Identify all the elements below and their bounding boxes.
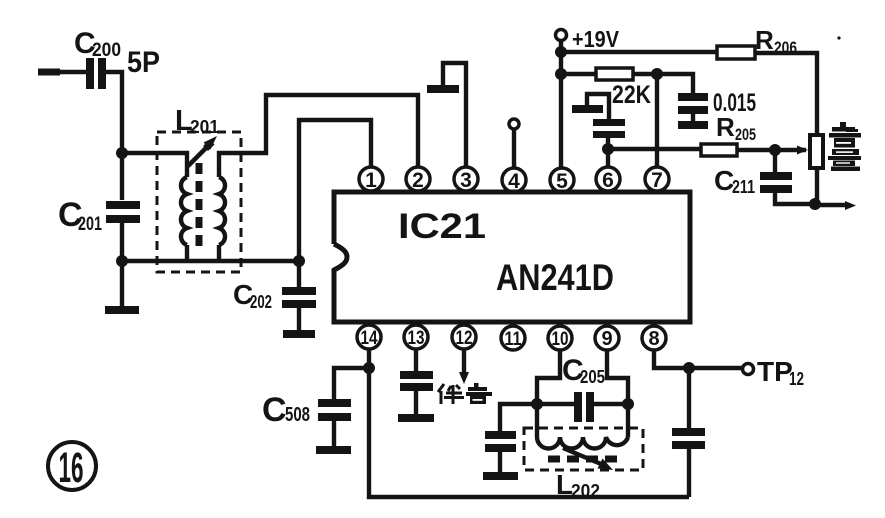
- ground: [483, 472, 518, 480]
- inductor L201 primary winding: [181, 177, 187, 245]
- label L201: [175, 105, 219, 137]
- op-amp U1 IC21 AN241D body: [334, 192, 690, 322]
- svg-text:12: 12: [456, 328, 473, 349]
- svg-text:16: 16: [59, 444, 84, 492]
- pin 1: [359, 167, 383, 192]
- inductor L202 tuning arrow: [563, 448, 613, 470]
- svg-text:TP: TP: [757, 356, 793, 387]
- node pot bottom junction: [809, 198, 821, 210]
- svg-text:3: 3: [460, 169, 472, 192]
- wire pin 12 output arrow: [459, 349, 469, 384]
- wire C202 to ground: [297, 308, 301, 330]
- svg-text:2: 2: [412, 169, 424, 192]
- capacitor C202: [282, 287, 316, 308]
- node tank right junction: [622, 398, 634, 410]
- wire pin 7 riser: [655, 74, 659, 167]
- wire C508 to ground: [332, 421, 336, 446]
- wire side cap to ground: [498, 452, 502, 472]
- svg-text:13: 13: [408, 328, 425, 349]
- wire pin14 down and bottom bus: [369, 368, 689, 497]
- wire pin14 to C508: [334, 368, 369, 399]
- wire input line: [38, 70, 86, 74]
- inductor L202 dashed box: [524, 428, 643, 470]
- node A junction: [116, 147, 128, 159]
- capacitor tank bypass: [485, 431, 516, 452]
- wire node B down to ground: [120, 261, 124, 306]
- label volume chinese: [828, 122, 861, 171]
- wire bottom bus y261 node B to node C: [122, 259, 299, 263]
- ground: [105, 306, 139, 314]
- svg-text:1: 1: [365, 169, 377, 192]
- wire node C up to pin 1: [299, 120, 371, 261]
- wire node C to C202: [297, 261, 301, 287]
- wire node E to C211: [773, 150, 777, 172]
- wire node TP down to cap: [687, 368, 691, 428]
- wire pin 13 stub: [414, 349, 418, 371]
- inductor L202 core: [548, 456, 617, 463]
- svg-text:205: 205: [580, 367, 605, 387]
- wire pin8 cap to bottom bus: [687, 449, 691, 497]
- node TP junction: [683, 362, 695, 374]
- node scan speck: [837, 36, 840, 39]
- pin 8: [642, 326, 666, 350]
- wire R205 to node E: [737, 148, 775, 152]
- wire L201 secondary bottom lead: [217, 245, 221, 261]
- node junction 19V-22K: [555, 68, 567, 80]
- wire node D to R205: [608, 147, 701, 151]
- label C200: [74, 27, 121, 61]
- label sound chinese: [438, 384, 464, 404]
- capacitor C205: [574, 392, 594, 422]
- label C205: [562, 354, 605, 387]
- pin 10: [548, 326, 572, 350]
- inductor L202 winding: [537, 437, 628, 449]
- wire C211 down to bottom rail: [775, 193, 815, 204]
- wire bypass cap to ground: [587, 94, 609, 119]
- pin 2: [406, 167, 430, 192]
- wire tank left down lead: [535, 404, 539, 437]
- node junction 19V-R206: [555, 46, 567, 58]
- capacitor C508: [318, 399, 351, 421]
- svg-text:12: 12: [789, 369, 804, 389]
- wire +19V to R206: [561, 50, 717, 54]
- svg-text:200: 200: [92, 40, 121, 61]
- wire pin13 cap to ground: [414, 391, 418, 414]
- transformer L201 core: [196, 163, 203, 250]
- capacitor pin6 bypass: [593, 119, 625, 138]
- wire 0.015 to ground: [691, 114, 695, 121]
- resistor R205: [701, 144, 737, 156]
- wire 22K to node F: [633, 72, 657, 76]
- ground: [283, 330, 315, 338]
- svg-text:11: 11: [505, 329, 522, 350]
- ground: [398, 414, 434, 422]
- wire node E to pot wiper with arrow: [775, 146, 808, 155]
- label C508: [262, 391, 310, 429]
- node terminal above pin 4: [509, 119, 519, 129]
- label R205: [716, 112, 756, 144]
- pin 9: [595, 326, 619, 350]
- label TP12: [757, 356, 804, 389]
- wire +19V rail down to pin 5: [559, 41, 563, 168]
- potentiometer volume: [810, 135, 823, 168]
- capacitor pin8: [672, 428, 705, 449]
- wire pin 8 to node TP: [654, 350, 689, 368]
- capacitor pin13: [400, 371, 433, 391]
- wire node D to bypass cap: [606, 137, 610, 149]
- label L202: [556, 469, 600, 501]
- wire node F to cap 0.015: [657, 74, 693, 93]
- wire R206 to volume pot top: [755, 53, 817, 135]
- svg-text:IC21: IC21: [398, 207, 486, 246]
- label C202: [233, 279, 272, 312]
- wire pin 10 to tank left node: [537, 350, 560, 404]
- svg-text:201: 201: [78, 214, 102, 235]
- node pin14 junction: [363, 362, 375, 374]
- wire C200 to corner down left rail: [106, 72, 122, 153]
- wire pin 6 stub: [606, 149, 610, 167]
- pin 13: [404, 325, 428, 349]
- node B junction: [116, 255, 128, 267]
- wire node TP to TP12 terminal: [689, 366, 742, 370]
- wire bottom stub arrow: [815, 201, 856, 210]
- wire +19V to 22K: [561, 72, 596, 76]
- capacitor C200: [86, 58, 106, 89]
- node F junction pin7: [651, 68, 663, 80]
- svg-text:10: 10: [552, 329, 569, 350]
- label C211: [714, 165, 755, 197]
- transformer L201 dashed box: [157, 132, 241, 272]
- pin 7: [645, 167, 669, 192]
- svg-text:4: 4: [508, 170, 520, 193]
- svg-text:508: 508: [285, 404, 310, 426]
- ground: [316, 446, 351, 454]
- wire L201 primary bottom lead: [185, 245, 189, 261]
- label 5P: [127, 46, 160, 79]
- pin 3: [454, 167, 478, 192]
- svg-text:6: 6: [602, 169, 614, 192]
- wire C205 to tank right: [594, 402, 628, 406]
- svg-text:R: R: [716, 112, 735, 142]
- inductor L201 secondary winding: [219, 177, 225, 245]
- svg-text:C: C: [262, 391, 287, 429]
- svg-text:5: 5: [556, 170, 568, 193]
- pin 5: [550, 168, 574, 193]
- svg-text:5P: 5P: [127, 46, 160, 79]
- pin 14: [357, 325, 381, 349]
- ground: [678, 121, 708, 129]
- wire tank right down lead: [626, 404, 630, 437]
- wire pin 3 to ground: [443, 63, 466, 167]
- resistor R206: [717, 46, 755, 59]
- label R206: [755, 25, 797, 57]
- wire node A to C201: [120, 153, 124, 200]
- node +19V terminal: [556, 30, 567, 41]
- wire pin 9 to tank right node: [607, 350, 628, 404]
- wire L201 secondary top to pin 2: [219, 95, 418, 177]
- wire pin 14 stub: [367, 349, 371, 368]
- svg-text:22K: 22K: [612, 81, 651, 109]
- svg-text:211: 211: [732, 177, 755, 197]
- wire tank left to C205: [537, 402, 575, 406]
- capacitor 0.015: [678, 93, 708, 114]
- resistor 22K: [596, 68, 633, 80]
- pin 4: [502, 168, 526, 193]
- pin 12: [452, 325, 476, 349]
- wire tank left to side cap: [500, 404, 537, 431]
- wire C201 to node B: [120, 223, 124, 261]
- svg-text:+19V: +19V: [572, 26, 620, 52]
- svg-text:R: R: [755, 25, 774, 55]
- svg-text:7: 7: [651, 169, 663, 192]
- node C junction: [293, 255, 305, 267]
- svg-text:205: 205: [735, 125, 756, 144]
- svg-text:202: 202: [250, 292, 272, 312]
- node tank left junction: [531, 398, 543, 410]
- wire pin 4 to test terminal: [512, 130, 516, 168]
- svg-text:201: 201: [190, 117, 219, 137]
- capacitor C211: [760, 172, 792, 193]
- svg-text:202: 202: [571, 481, 600, 501]
- svg-text:9: 9: [601, 328, 612, 350]
- ground: [572, 105, 603, 113]
- wire node A to L201 primary top: [122, 153, 187, 177]
- svg-text:AN241D: AN241D: [496, 257, 614, 298]
- svg-text:8: 8: [648, 328, 659, 350]
- svg-text:14: 14: [361, 328, 378, 349]
- pin 11: [501, 326, 525, 350]
- ground: [427, 85, 459, 93]
- node figure number 16: [48, 442, 96, 492]
- node D junction pin 6: [602, 143, 614, 155]
- capacitor C201: [106, 201, 140, 223]
- label C201: [58, 196, 102, 235]
- pin 6: [596, 167, 620, 192]
- node E junction: [769, 144, 781, 156]
- transformer L201 tuning arrow: [188, 136, 217, 166]
- wire pot bottom: [815, 168, 819, 204]
- node TP12 terminal: [743, 364, 754, 375]
